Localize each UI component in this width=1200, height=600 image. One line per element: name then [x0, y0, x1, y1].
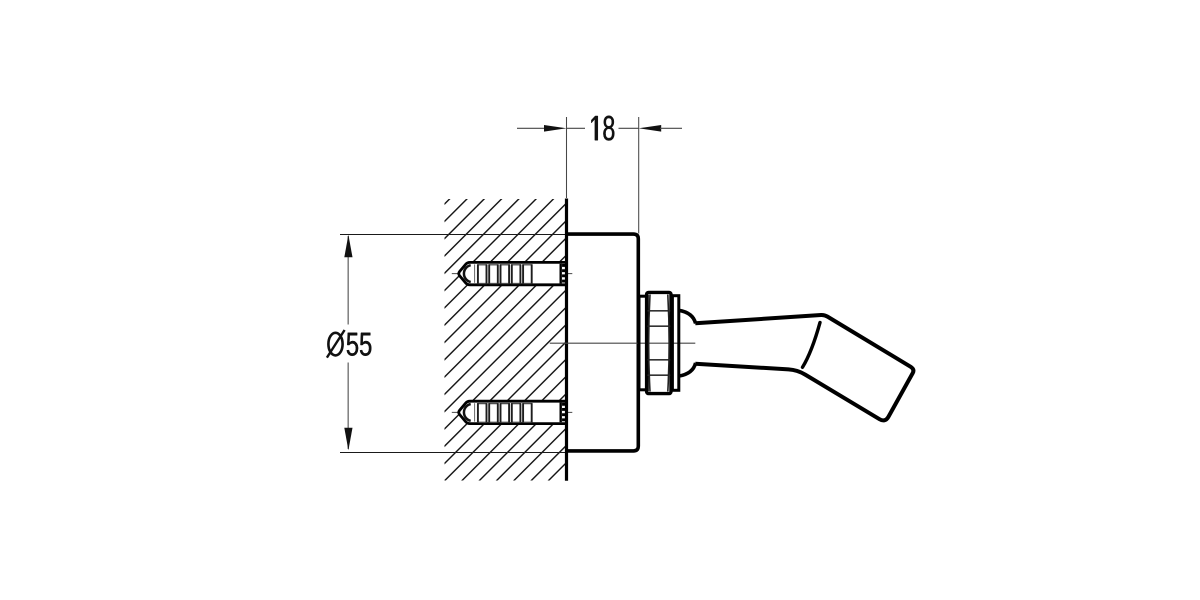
mounting plate (escutcheon, 18 deep) [567, 234, 639, 451]
extension line bottom (diameter 55) [340, 452, 567, 454]
wall face line [565, 199, 568, 481]
lever crease line [803, 323, 821, 368]
extension line left (18 dim) [566, 117, 568, 198]
knurled nut body [647, 292, 671, 393]
extension line right (18 dim) [638, 117, 640, 234]
extension line top (diameter 55) [340, 234, 567, 236]
screw S1 (top wall plug) [452, 262, 573, 284]
dimension line 18 with arrows [517, 125, 682, 132]
dimension line diameter 55 with arrows [344, 235, 352, 450]
dimension text 18 [591, 116, 614, 141]
wall section (hatched masonry) [445, 199, 566, 481]
lever handle outline [695, 315, 913, 420]
knurled nut right collar [672, 296, 678, 391]
screw S2 (bottom wall plug) [452, 401, 573, 423]
knurled nut left collar [639, 296, 647, 390]
dimension text diameter 55 [327, 330, 371, 358]
main centerline (fixture axis) [550, 342, 698, 344]
dome transition to lever [679, 310, 696, 376]
